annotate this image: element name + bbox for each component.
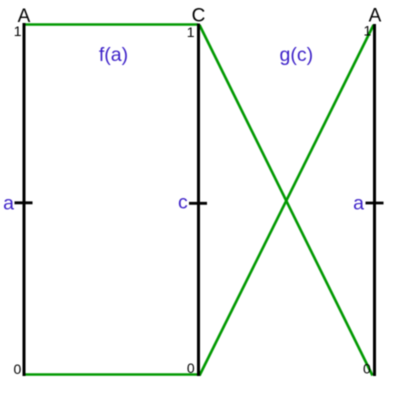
- svg-text:1: 1: [187, 24, 195, 40]
- svg-text:g(c): g(c): [280, 44, 314, 66]
- interval A' (right axis): [373, 24, 376, 376]
- svg-text:0: 0: [187, 360, 195, 376]
- segment g descending: g maps top of C to bottom of A': [200, 25, 373, 376]
- svg-text:a: a: [353, 192, 364, 214]
- svg-text:a: a: [3, 192, 14, 214]
- segment g ascending: g maps bottom of C to top of A': [200, 25, 374, 376]
- segment f bottom: f maps bottom of A to bottom of C: [25, 373, 199, 376]
- segment f top: f maps top of A to top of C: [25, 23, 199, 26]
- svg-text:c: c: [178, 192, 188, 214]
- tick a on interval A': [366, 202, 384, 205]
- svg-text:f(a): f(a): [99, 44, 128, 66]
- svg-text:1: 1: [14, 23, 22, 39]
- svg-text:0: 0: [14, 361, 22, 377]
- tick c on interval C: [189, 202, 207, 205]
- svg-text:0: 0: [363, 361, 371, 377]
- svg-text:1: 1: [364, 23, 372, 39]
- tick a on interval A: [15, 201, 33, 204]
- interval A (left axis): [23, 23, 26, 376]
- interval C (middle axis): [197, 24, 200, 377]
